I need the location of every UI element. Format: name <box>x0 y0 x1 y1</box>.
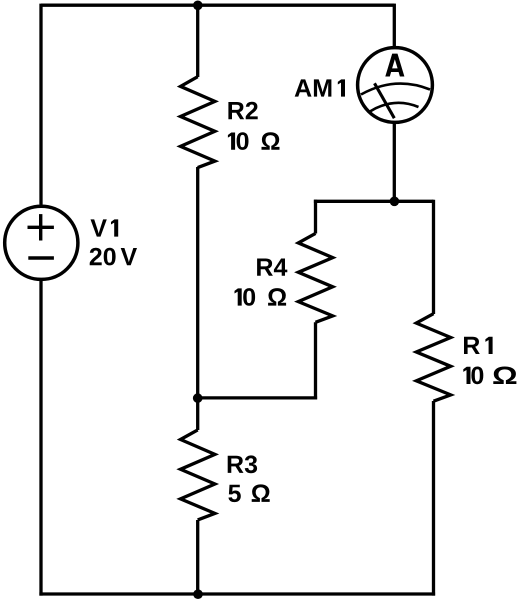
resistor R4 <box>298 233 332 322</box>
label R3 value <box>228 484 269 502</box>
wire left vertical lower <box>39 281 42 596</box>
wire left vertical upper <box>39 4 42 205</box>
wire R4 bottom horizontal <box>198 396 317 399</box>
wire bottom horizontal <box>39 592 435 595</box>
AM1 circle <box>358 48 433 123</box>
AM1 letter A <box>385 54 404 77</box>
label V1 <box>91 219 119 236</box>
wire R1 top lead <box>432 200 435 314</box>
resistor R3 <box>181 430 215 520</box>
wire ammeter top lead <box>393 4 396 48</box>
ammeter AM1 <box>358 48 433 123</box>
resistor R2 <box>181 77 215 168</box>
V1 plus sign <box>28 226 54 229</box>
node left junction <box>193 393 203 403</box>
V1 circle <box>5 206 78 279</box>
wire R4 bottom lead <box>314 322 317 399</box>
label R1 value <box>463 367 516 385</box>
V1 minus sign <box>28 256 54 259</box>
AM1 needle <box>375 83 395 118</box>
label R4 value <box>235 288 287 306</box>
wire R2 to node <box>196 167 199 398</box>
AM1 scale arc outer <box>361 84 430 95</box>
AM1 scale arc inner <box>370 103 419 112</box>
wire R3 bottom lead <box>196 520 199 594</box>
label V1 value <box>90 248 137 266</box>
wire mid horizontal <box>314 200 434 203</box>
label R3 <box>228 455 257 473</box>
resistor R1 <box>416 314 450 402</box>
label R2 value <box>228 132 280 150</box>
wire R4 top lead <box>314 200 317 234</box>
wire ammeter bottom lead <box>393 123 396 202</box>
label R2 <box>228 102 257 120</box>
label AM1 <box>295 79 345 96</box>
label R4 <box>257 259 287 276</box>
wire R2 branch top <box>196 5 199 77</box>
node top junction <box>193 1 203 11</box>
node mid junction <box>390 197 400 207</box>
wire top horizontal <box>41 4 394 7</box>
wire R1 bottom lead <box>432 401 435 596</box>
label R1 <box>464 337 493 354</box>
wire R3 top lead <box>196 398 199 430</box>
voltage source V1 <box>5 206 78 279</box>
node bottom junction <box>193 589 203 599</box>
